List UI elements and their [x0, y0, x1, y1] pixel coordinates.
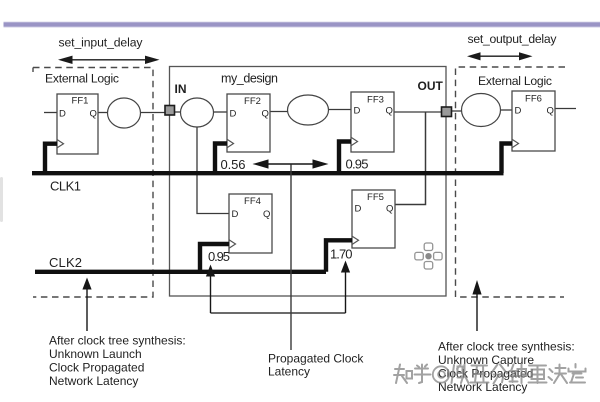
wire FF3 Q to OUT port: [394, 111, 442, 113]
watermark zhihu: [394, 364, 586, 384]
text after clock tree synthesis right: [438, 340, 575, 395]
watermark char hu: [415, 365, 431, 384]
combinational cloud between FF2 FF3: [288, 95, 329, 125]
CLK1 trunk wire: [32, 171, 504, 175]
svg-text:0.56: 0.56: [221, 157, 246, 172]
CLK2 trunk wire: [35, 270, 326, 274]
arrow between 0.56 and 0.95: [253, 159, 329, 168]
text after clock tree synthesis left: [49, 334, 186, 389]
CLK2 branch to FF5 clock: [326, 240, 352, 271]
bracket line: [211, 312, 346, 314]
svg-text:0.95: 0.95: [208, 249, 230, 264]
svg-text:After clock tree synthesis:: After clock tree synthesis:: [438, 340, 575, 354]
annotation line from arrow center down: [290, 165, 292, 351]
svg-text:my_design: my_design: [221, 72, 278, 86]
combinational cloud after IN: [181, 98, 214, 127]
clock pin triangle FF2: [227, 139, 234, 147]
clock pin triangle FF6: [512, 139, 519, 147]
svg-text:FF6: FF6: [525, 94, 542, 105]
svg-text:0.95: 0.95: [346, 156, 369, 171]
arrow set_output_delay span: [467, 52, 533, 60]
watermark char ding: [569, 364, 586, 383]
wire cloud to IN port: [140, 112, 165, 114]
svg-text:CLK1: CLK1: [50, 179, 81, 194]
clock pin triangle FF3: [351, 137, 358, 145]
watermark char zhong: [510, 365, 522, 384]
svg-text:set_input_delay: set_input_delay: [59, 36, 144, 50]
wire cloud down to FF4 D: [197, 127, 229, 214]
svg-text:FF3: FF3: [367, 95, 384, 106]
svg-text:Q: Q: [547, 106, 554, 117]
dashed box external logic left edge stub: [32, 68, 34, 73]
combinational cloud after OUT: [462, 94, 501, 127]
svg-text:IN: IN: [175, 82, 187, 96]
watermark char wu: [471, 366, 489, 383]
wire FF2 Q to cloud: [270, 111, 288, 113]
arrow set_input_delay span: [58, 56, 160, 64]
flip-flop FF3: [351, 92, 394, 152]
top purple divider bar: [4, 21, 600, 24]
svg-text:Q: Q: [262, 109, 269, 120]
svg-text:FF5: FF5: [367, 192, 384, 203]
svg-text:D: D: [230, 109, 237, 120]
left annotation up-arrow to CLK2: [82, 278, 91, 332]
bracket right up-arrow to CLK2: [341, 261, 350, 314]
svg-text:External Logic: External Logic: [45, 72, 119, 86]
CLK1 branch to FF6 clock: [502, 144, 513, 174]
svg-text:D: D: [59, 109, 66, 120]
watermark char zhi: [394, 365, 407, 384]
wire FF6 Q output stub: [555, 108, 576, 110]
svg-text:Q: Q: [263, 209, 270, 220]
svg-text:OUT: OUT: [418, 79, 444, 93]
port OUT square: [442, 107, 452, 117]
dashed box external logic right: [456, 67, 566, 297]
svg-text:D: D: [355, 204, 362, 215]
watermark char fen: [491, 365, 507, 384]
svg-text:Q: Q: [386, 106, 393, 117]
flip-flop FF6: [512, 91, 555, 151]
clock pin triangle FF4: [229, 240, 236, 248]
flip-flop FF1: [57, 94, 98, 154]
svg-text:Q: Q: [90, 109, 97, 120]
clock pin triangle FF1: [57, 140, 64, 148]
watermark char zai: [529, 366, 547, 384]
dashed box external logic left: [33, 68, 153, 298]
svg-text:1.70: 1.70: [330, 247, 353, 262]
wire cloud to FF2 D: [213, 111, 227, 113]
move cross icon: [415, 243, 442, 269]
svg-text:CLK2: CLK2: [49, 255, 82, 270]
right annotation up-arrow to dashed box: [472, 280, 481, 331]
svg-text:External Logic: External Logic: [478, 74, 552, 88]
text propagated clock latency: [268, 352, 364, 379]
flip-flop FF4: [229, 194, 272, 253]
svg-text:Q: Q: [386, 204, 393, 215]
svg-text:Network Latency: Network Latency: [49, 374, 138, 388]
svg-text:Latency: Latency: [268, 365, 310, 379]
svg-text:FF1: FF1: [72, 96, 89, 107]
CLK2 branch to FF4 clock: [200, 244, 229, 272]
svg-text:set_output_delay: set_output_delay: [468, 32, 558, 46]
flip-flop FF2: [227, 94, 270, 152]
svg-text:FF4: FF4: [244, 196, 261, 207]
wire cloud to FF6 D: [501, 109, 513, 111]
combinational cloud after FF1: [108, 98, 141, 128]
watermark char jue: [549, 365, 568, 384]
my_design block boundary: [170, 67, 447, 297]
svg-text:Clock Propagated: Clock Propagated: [49, 361, 144, 375]
svg-text:Propagated Clock: Propagated Clock: [268, 352, 364, 366]
port IN square: [165, 106, 175, 116]
svg-text:D: D: [232, 209, 239, 220]
CLK1 branch to FF3 clock: [339, 142, 351, 174]
svg-text:Unknown Launch: Unknown Launch: [49, 347, 142, 361]
left edge artifact: [0, 177, 3, 222]
wire into FF1 D: [44, 112, 57, 114]
wire OUT port to cloud: [452, 110, 463, 112]
clock pin triangle FF5: [352, 236, 359, 244]
wire FF1 Q to cloud: [98, 112, 108, 114]
wire IN port to cloud: [175, 111, 182, 113]
wire cloud to FF3 D: [328, 109, 351, 111]
CLK1 branch to FF2 clock: [215, 144, 227, 174]
svg-text:After clock tree synthesis:: After clock tree synthesis:: [49, 334, 186, 348]
svg-text:D: D: [354, 106, 361, 117]
watermark char zuo: [452, 365, 469, 384]
svg-text:FF2: FF2: [244, 96, 261, 107]
watermark char at: [433, 366, 449, 382]
flip-flop FF5: [352, 190, 395, 248]
CLK1 branch to FF1 clock: [45, 144, 57, 173]
bracket left up-arrow to CLK2: [206, 265, 215, 314]
svg-text:D: D: [515, 106, 522, 117]
wire FF5 Q up to OUT net: [395, 112, 426, 205]
